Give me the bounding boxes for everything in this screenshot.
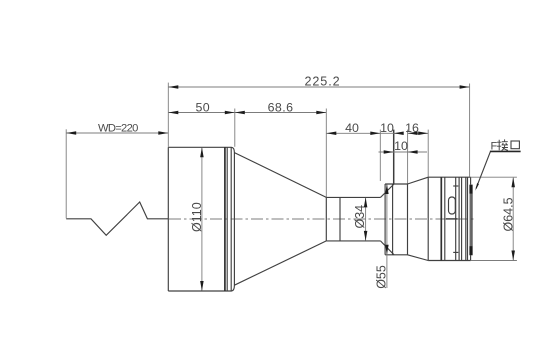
extension line front face [167,83,169,147]
dimension φ110 [190,147,204,291]
rear barrel φ64.5 [428,177,470,260]
svg-text:10: 10 [380,121,394,135]
extension line chamfer start [379,130,381,181]
extension line taper start [407,130,409,184]
label F接口 (F-mount) [490,139,521,152]
taper to rear barrel [408,177,429,260]
svg-text:40: 40 [345,121,359,135]
svg-text:68.6: 68.6 [268,100,294,114]
extension line rear barrel front [427,130,429,177]
dimension WD=220 [66,123,168,135]
svg-text:Ø110: Ø110 [190,202,204,232]
rear barrel rings [441,177,467,260]
extension line disc rear (thick) [393,130,395,184]
extension lines φ64.5 [471,177,517,260]
dimension 50 [168,100,235,114]
dimension 16 [405,121,428,135]
extension line rear mount face [469,84,471,177]
cone section [234,153,326,286]
svg-text:Ø55: Ø55 [375,265,389,289]
svg-text:225.2: 225.2 [304,75,340,89]
svg-text:Ø64.5: Ø64.5 [501,197,515,231]
center mark on rear barrel [446,218,458,220]
dimension φ34 [353,197,367,241]
dimension φ64.5 [501,177,515,260]
front barrel cylinder φ110 [168,147,234,291]
chamfer cone to φ55 [381,184,395,255]
svg-text:Ø34: Ø34 [353,205,367,229]
extension line rear of front barrel [234,109,236,147]
dimension 10 (lower) [379,139,428,154]
svg-text:16: 16 [405,121,419,135]
front barrel rear ring lines [225,147,231,291]
extension line small tube front [325,109,327,198]
dimension 68.6 [235,100,326,114]
F-mount flange plate [469,185,472,256]
optical axis centerline [169,218,476,220]
svg-text:10: 10 [394,139,408,153]
leader line to flange [475,152,490,191]
φ55 disc [385,184,407,255]
dimension 10 (upper) [380,121,404,135]
dimension 40 [326,121,380,135]
svg-text:50: 50 [196,100,211,114]
dimension φ55 [375,184,389,289]
rear mount face edges [470,177,472,260]
tick marks on ring [453,186,458,252]
extension line WD left [65,129,67,218]
break (zigzag) line on working-distance axis [66,202,168,235]
screw slot oval [449,197,456,214]
small tube φ34 [326,197,380,241]
svg-text:WD=220: WD=220 [98,123,138,135]
dimension 225.2 [168,75,469,89]
